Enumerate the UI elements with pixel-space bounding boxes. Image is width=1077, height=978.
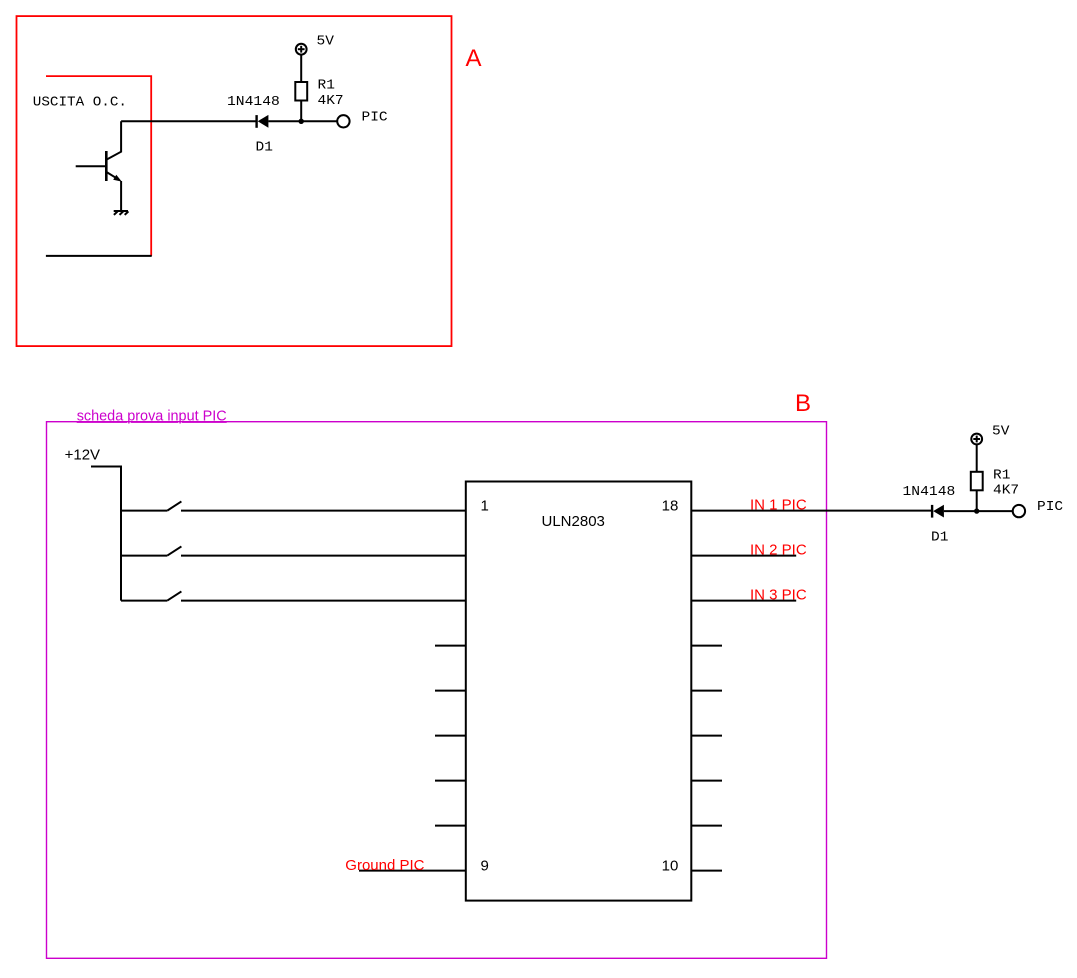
node junction dot (A) bbox=[299, 119, 304, 124]
power 5V symbol (circle with plus) (B) bbox=[971, 434, 982, 445]
pin stub right 15 bbox=[691, 645, 722, 647]
diode D1 triangle bbox=[258, 115, 269, 128]
power 5V symbol (circle with plus) (A) bbox=[296, 44, 307, 55]
wire: collector to diode D1 bbox=[121, 120, 257, 122]
pin stub left 7 bbox=[435, 780, 466, 782]
svg-text:9: 9 bbox=[481, 858, 489, 875]
switch S3 left lead bbox=[121, 600, 167, 602]
wire: +12V feed bbox=[91, 467, 121, 601]
svg-text:5V: 5V bbox=[992, 424, 1010, 439]
pin stub right 11 bbox=[691, 825, 722, 827]
wire: junction up to resistor R1 (B) bbox=[976, 490, 978, 511]
svg-text:1N4148: 1N4148 bbox=[227, 95, 280, 110]
svg-text:D1: D1 bbox=[256, 141, 273, 156]
wire: switch S3 to pin 3 bbox=[181, 600, 466, 602]
wire: device bottom return lead bbox=[46, 255, 152, 257]
terminal PIC (open circle) (B) bbox=[1013, 505, 1025, 517]
resistor R1 (B) bbox=[971, 472, 983, 491]
diode D1 (1N4148) cathode bar bbox=[255, 115, 257, 128]
svg-text:4K7: 4K7 bbox=[993, 484, 1019, 499]
switch S1 left lead bbox=[121, 510, 167, 512]
switch S2 left lead bbox=[121, 555, 167, 557]
wire: junction up to resistor R1 bbox=[300, 101, 302, 122]
frame A (red border of section A) bbox=[17, 16, 452, 346]
svg-text:scheda prova input PIC: scheda prova input PIC bbox=[77, 407, 227, 424]
svg-text:PIC: PIC bbox=[362, 110, 388, 125]
wire: pin 18 to diode D1 (net IN 1 PIC) bbox=[691, 510, 932, 512]
svg-text:B: B bbox=[795, 390, 811, 417]
wire: pin 16 net IN 3 PIC bbox=[691, 600, 796, 602]
svg-text:R1: R1 bbox=[993, 469, 1010, 484]
ground (chassis ground under Q1 emitter) bbox=[114, 211, 129, 215]
wire: pin 17 net IN 2 PIC bbox=[691, 555, 796, 557]
svg-text:IN 1 PIC: IN 1 PIC bbox=[750, 497, 807, 514]
svg-text:PIC: PIC bbox=[1037, 500, 1063, 515]
switch S2 blade bbox=[167, 546, 181, 555]
svg-text:1N4148: 1N4148 bbox=[903, 485, 956, 500]
wire: resistor to 5V supply (B) bbox=[976, 444, 978, 471]
IC U1 ULN2803 body bbox=[466, 482, 692, 901]
svg-text:D1: D1 bbox=[931, 530, 948, 545]
pin stub left 4 bbox=[435, 645, 466, 647]
diode D1 (B) cathode bar bbox=[931, 505, 933, 518]
device outline USCITA O.C. (red open-collector module boundary) bbox=[46, 76, 151, 256]
svg-text:ULN2803: ULN2803 bbox=[542, 513, 605, 530]
svg-text:IN 3 PIC: IN 3 PIC bbox=[750, 587, 807, 604]
wire: diode to PIC terminal bbox=[268, 120, 337, 122]
wire: diode to PIC terminal (B) bbox=[944, 510, 1013, 512]
svg-text:5V: 5V bbox=[317, 35, 335, 50]
svg-text:1: 1 bbox=[481, 498, 489, 515]
pin stub right 14 bbox=[691, 690, 722, 692]
resistor R1 (A) bbox=[295, 82, 307, 101]
wire: transistor base lead bbox=[76, 165, 106, 167]
wire: resistor to 5V supply bbox=[300, 55, 302, 82]
switch S3 blade bbox=[167, 591, 181, 600]
switch S1 blade bbox=[167, 501, 181, 510]
pin stub left 8 bbox=[435, 825, 466, 827]
frame B (magenta border of section B) bbox=[47, 422, 827, 959]
svg-text:A: A bbox=[466, 45, 482, 72]
pin stub right 10 bbox=[691, 870, 722, 872]
svg-text:R1: R1 bbox=[318, 79, 335, 94]
wire: switch S1 to pin 1 bbox=[181, 510, 466, 512]
pin stub left 6 bbox=[435, 735, 466, 737]
svg-text:10: 10 bbox=[662, 858, 679, 875]
svg-text:USCITA O.C.: USCITA O.C. bbox=[33, 95, 127, 110]
svg-text:4K7: 4K7 bbox=[318, 94, 344, 109]
svg-text:IN 2 PIC: IN 2 PIC bbox=[750, 542, 807, 559]
wire: switch S2 to pin 2 bbox=[181, 555, 466, 557]
svg-text:Ground PIC: Ground PIC bbox=[345, 857, 424, 874]
diode D1 (B) triangle bbox=[933, 505, 944, 518]
node junction dot (B) bbox=[974, 508, 979, 513]
terminal PIC (open circle) (A) bbox=[337, 115, 349, 127]
pin stub right 13 bbox=[691, 735, 722, 737]
svg-text:+12V: +12V bbox=[65, 446, 100, 463]
pin stub right 12 bbox=[691, 780, 722, 782]
svg-text:18: 18 bbox=[662, 498, 679, 515]
pin stub left 5 bbox=[435, 690, 466, 692]
transistor Q1 (NPN, open collector) bbox=[106, 121, 122, 211]
wire: Ground PIC to pin 9 bbox=[359, 870, 466, 872]
